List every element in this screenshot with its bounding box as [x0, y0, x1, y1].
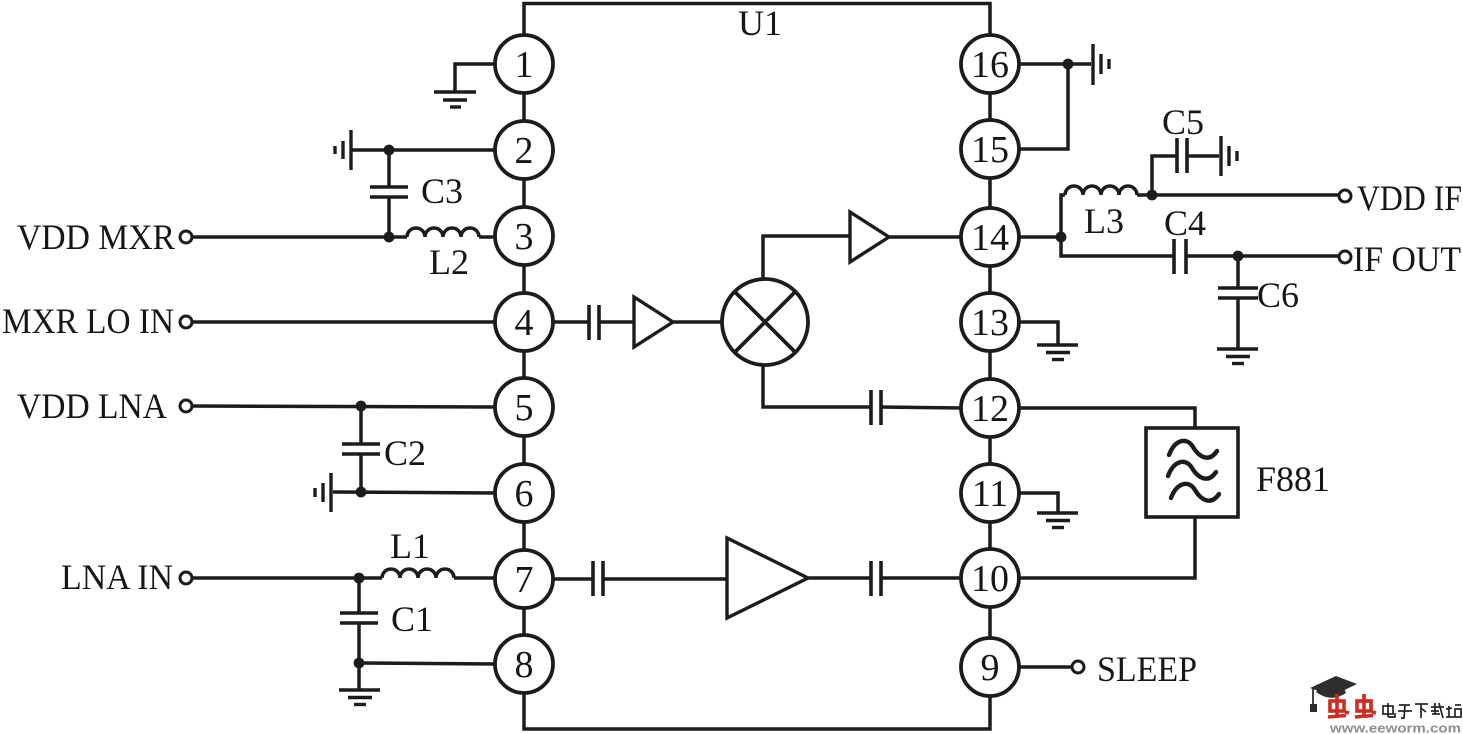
pin 11 — [961, 464, 1019, 522]
capacitor C2 — [342, 406, 380, 492]
svg-text:1: 1 — [515, 44, 534, 86]
pin 12 — [961, 379, 1019, 437]
wire VDD LNA to pin5 — [192, 406, 496, 407]
svg-text:C1: C1 — [391, 599, 433, 639]
logo text 电子下载站 (dark) — [1383, 703, 1461, 718]
pin 13 — [961, 293, 1019, 351]
node junction VDD LNA / C2 — [356, 401, 367, 412]
wire MXR LO IN to pin4 — [192, 320, 496, 324]
svg-text:VDD IF: VDD IF — [1357, 178, 1462, 218]
wire pin9 to SLEEP — [1018, 665, 1071, 669]
ground (sideways) at pin 6 — [315, 473, 331, 512]
wire pin14 to C4 — [1061, 237, 1173, 256]
inductor L1 — [382, 569, 496, 578]
pin 8 — [495, 635, 553, 693]
ground at pin11 — [1037, 513, 1078, 528]
svg-text:MXR LO IN: MXR LO IN — [2, 301, 174, 341]
wire pin16 junction to pin15 — [1018, 64, 1068, 149]
svg-text:10: 10 — [971, 558, 1009, 600]
wire pin1 to ground — [455, 64, 496, 92]
ground below C1 — [339, 663, 380, 705]
node junction C2 / pin6 — [356, 487, 367, 498]
wire F881 to pin10 — [1018, 517, 1195, 578]
svg-text:L1: L1 — [390, 526, 430, 566]
svg-text:VDD MXR: VDD MXR — [17, 217, 175, 257]
svg-text:F881: F881 — [1256, 459, 1330, 499]
wire pin12 to F881 — [1018, 408, 1195, 428]
svg-text:LNA IN: LNA IN — [61, 557, 173, 597]
wire pin7 to coupling cap — [552, 577, 592, 581]
terminal SLEEP — [1072, 661, 1084, 673]
pin 6 — [495, 464, 553, 522]
wire amp to cap — [808, 576, 871, 580]
pin 10 — [961, 549, 1019, 607]
wire cap to amp — [599, 320, 634, 324]
svg-text:SLEEP: SLEEP — [1097, 649, 1197, 689]
wire amp to mixer — [673, 320, 722, 324]
svg-text:C5: C5 — [1162, 102, 1204, 142]
svg-text:16: 16 — [971, 44, 1009, 86]
capacitor (pin4 coupling) — [589, 305, 599, 340]
wire pin13 to ground — [1018, 322, 1058, 345]
svg-text:C4: C4 — [1164, 203, 1206, 243]
ground (sideways right) at pin16 — [1093, 44, 1109, 85]
pin 4 — [495, 293, 553, 351]
svg-text:www.eeworm.com: www.eeworm.com — [1329, 722, 1461, 734]
pin 3 — [495, 207, 553, 265]
op-amp LO buffer — [634, 297, 673, 347]
svg-text:5: 5 — [515, 387, 534, 429]
mixer — [722, 279, 808, 365]
svg-text:3: 3 — [515, 216, 534, 258]
capacitor (pin7 coupling) — [593, 561, 603, 596]
pin 15 — [961, 120, 1019, 178]
ground at pin13 — [1037, 345, 1078, 360]
svg-text:6: 6 — [515, 473, 534, 515]
wire C4 to IF OUT — [1186, 254, 1339, 258]
svg-text:13: 13 — [971, 302, 1009, 344]
logo graduation cap — [1310, 676, 1357, 712]
node junction VDD MXR / C3 — [384, 232, 395, 243]
ground (sideways) at pin 2 — [335, 130, 351, 170]
pin 5 — [495, 378, 553, 436]
wire cap to LNA amp — [603, 577, 727, 581]
inductor L2 — [407, 228, 496, 237]
wire VDD MXR to L2 — [192, 235, 407, 239]
svg-text:14: 14 — [971, 217, 1009, 259]
svg-text:12: 12 — [971, 388, 1009, 430]
node junction LNA IN / C1 — [354, 573, 365, 584]
svg-text:4: 4 — [515, 302, 534, 344]
wire pin16 to ground — [1018, 62, 1091, 66]
terminal VDD IF — [1339, 190, 1351, 202]
wire amp2 to pin14 — [889, 235, 962, 239]
svg-text:C3: C3 — [421, 171, 463, 211]
svg-text:VDD LNA: VDD LNA — [17, 386, 167, 426]
svg-text:2: 2 — [515, 130, 534, 172]
svg-text:L3: L3 — [1084, 201, 1124, 241]
svg-text:9: 9 — [981, 647, 1000, 689]
svg-text:IF OUT: IF OUT — [1353, 239, 1461, 279]
filter F881 — [1146, 428, 1238, 517]
wire pin8 left — [359, 663, 496, 664]
node junction pin16 — [1063, 59, 1074, 70]
ground at pin 1 — [434, 92, 476, 107]
node junction L3 / C5 — [1147, 190, 1158, 201]
pin 16 — [961, 35, 1019, 93]
wire cap to pin10 — [881, 576, 962, 580]
svg-text:8: 8 — [515, 644, 534, 686]
ground below C6 — [1217, 349, 1258, 364]
wire mixer top to amp2 — [763, 236, 850, 279]
logo text 虫虫 (red) — [1328, 694, 1376, 717]
capacitor C6 — [1218, 256, 1258, 349]
IC U1 top border — [524, 4, 990, 38]
wire L3 to VDD IF — [1152, 193, 1339, 197]
pin 14 — [961, 208, 1019, 266]
wire LNA IN to L1 — [192, 576, 382, 580]
wire mixer bottom to cap — [763, 365, 871, 407]
wire pin4 to coupling cap — [552, 320, 588, 324]
capacitor (LNA out coupling) — [871, 561, 881, 596]
svg-text:U1: U1 — [738, 3, 782, 43]
svg-text:7: 7 — [515, 559, 534, 601]
svg-text:15: 15 — [971, 129, 1009, 171]
capacitor C5 — [1152, 138, 1219, 195]
pin 7 — [495, 550, 553, 608]
wire left column pin links — [522, 36, 526, 664]
wire cap to pin12 — [881, 407, 962, 408]
pin 2 — [495, 121, 553, 179]
node junction pin14 — [1056, 232, 1067, 243]
wire pin14 right — [1018, 235, 1061, 239]
op-amp LNA — [727, 538, 808, 618]
capacitor C1 — [340, 578, 378, 663]
ground (sideways right) at C5 — [1221, 136, 1237, 176]
wire pin11 to ground — [1018, 493, 1058, 513]
node junction pin2/C3 — [384, 145, 395, 156]
svg-text:11: 11 — [972, 473, 1009, 515]
wire pin2 left — [352, 148, 496, 152]
svg-text:C6: C6 — [1257, 275, 1299, 315]
capacitor C4 — [1174, 239, 1186, 274]
op-amp IF amp — [850, 212, 889, 262]
svg-text:L2: L2 — [429, 242, 469, 282]
capacitor (mixer out coupling) — [871, 390, 881, 425]
wire right column pin links — [988, 36, 992, 667]
inductor L3 — [1061, 186, 1152, 237]
pin 9 — [961, 638, 1019, 696]
capacitor C3 — [370, 150, 408, 237]
node junction C1 / pin8 — [354, 658, 365, 669]
pin 1 — [495, 35, 553, 93]
svg-text:C2: C2 — [384, 433, 426, 473]
wire pin6 left — [333, 492, 496, 493]
wire bottom pin8 to pin9 — [524, 692, 990, 729]
terminal IF OUT — [1339, 251, 1351, 263]
node junction C6 — [1233, 251, 1244, 262]
